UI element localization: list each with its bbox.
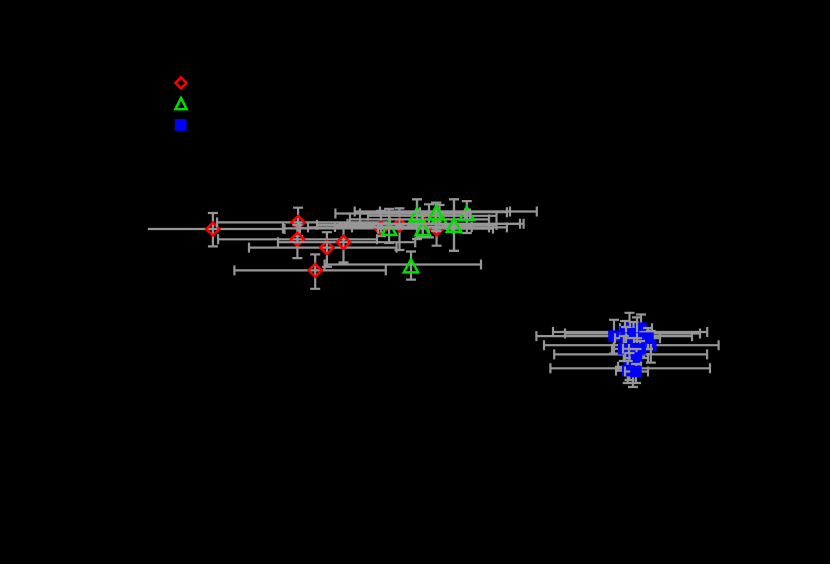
legend marker blue square: [175, 119, 187, 131]
error bars r6: [234, 254, 385, 288]
marker g3 green triangle: [410, 208, 424, 221]
marker bW2 blue square: [619, 326, 631, 338]
marker g4 green triangle: [416, 222, 430, 235]
error bars r8: [317, 208, 497, 250]
error bars g3b: [360, 199, 470, 239]
marker bJ blue square: [634, 343, 646, 355]
marker r7 red diamond: [375, 222, 388, 235]
error bars bF: [637, 328, 660, 349]
marker r6 red diamond: [309, 264, 322, 277]
error bars bN: [550, 352, 710, 387]
error bars g5b: [380, 203, 510, 231]
error bars g10: [325, 252, 481, 280]
marker bK blue square: [626, 349, 638, 361]
error bars g9: [420, 201, 507, 233]
marker r2 red diamond: [292, 216, 305, 229]
error bars g4: [308, 215, 507, 237]
error bars bO: [616, 361, 639, 383]
error bars r11: [378, 221, 493, 246]
marker r11 red diamond: [430, 222, 443, 235]
error bars r5: [278, 225, 415, 263]
marker bN blue square: [627, 363, 639, 375]
error bars bG: [544, 331, 719, 363]
legend marker red diamond: [176, 77, 187, 88]
marker bD blue square: [620, 332, 632, 344]
marker bW1 blue square: [608, 330, 620, 342]
marker g4b green triangle: [416, 222, 430, 235]
error bars bW2: [553, 321, 707, 349]
marker r1 red diamond: [206, 223, 219, 236]
marker bI blue square: [628, 343, 640, 355]
marker r7b red diamond: [375, 222, 388, 235]
error bars g1: [335, 209, 472, 243]
error bars bM: [618, 353, 641, 380]
marker r8 red diamond: [393, 218, 406, 231]
error bars bH: [612, 336, 636, 361]
marker g3b green triangle: [410, 208, 424, 221]
error bars bT1: [620, 313, 640, 340]
marker g5 green triangle: [429, 206, 443, 219]
error bars g7: [348, 199, 524, 251]
error bars r4: [249, 232, 397, 267]
error bars r1: [148, 213, 285, 246]
marker bO blue square: [622, 365, 634, 377]
error bars bW1: [536, 320, 692, 354]
error bars r2: [217, 208, 390, 236]
error bars g6: [368, 205, 497, 228]
legend marker green triangle: [175, 98, 186, 109]
marker bF blue square: [642, 332, 654, 344]
marker g10 green triangle: [404, 259, 418, 272]
marker g6 green triangle: [432, 211, 446, 224]
error bars g7b: [360, 199, 520, 251]
marker bH blue square: [618, 343, 630, 355]
marker g1 green triangle: [382, 222, 396, 235]
marker bG blue square: [645, 339, 657, 351]
error bars r7b: [300, 211, 460, 236]
marker r4 red diamond: [320, 241, 333, 254]
error bars bL: [625, 349, 648, 368]
marker bT2 blue square: [635, 322, 647, 334]
marker bW3 blue square: [628, 328, 640, 340]
error bars bK: [554, 344, 707, 374]
error bars bI: [623, 338, 645, 363]
error bars bP: [625, 364, 648, 383]
error bars g3: [335, 199, 465, 239]
marker bP blue square: [630, 366, 642, 378]
marker r3 red diamond: [291, 233, 304, 246]
marker bE blue square: [631, 332, 643, 344]
error bars g5: [355, 203, 537, 231]
marker g7 green triangle: [447, 219, 461, 232]
marker g7b green triangle: [447, 219, 461, 232]
marker r10 red diamond: [423, 213, 436, 226]
marker g9 green triangle: [460, 207, 474, 220]
marker g5b green triangle: [429, 206, 443, 219]
marker r5 red diamond: [337, 236, 350, 249]
error bars bE: [626, 317, 649, 360]
error bars bJ: [629, 341, 651, 357]
marker bL blue square: [631, 352, 643, 364]
error bars bT2: [630, 315, 652, 343]
error bars bW3: [565, 322, 700, 350]
error bars r10: [350, 204, 489, 237]
error bars r7: [283, 211, 452, 236]
marker bT1 blue square: [624, 322, 636, 334]
marker bM blue square: [624, 361, 636, 373]
error bars bD: [615, 327, 638, 350]
error bars r3: [218, 225, 377, 258]
error bars g4b: [352, 215, 489, 237]
